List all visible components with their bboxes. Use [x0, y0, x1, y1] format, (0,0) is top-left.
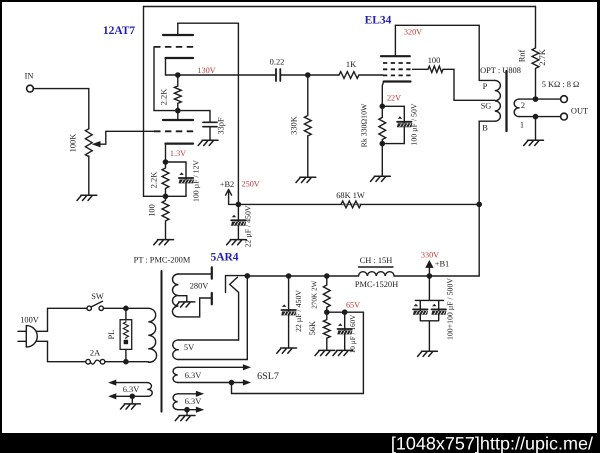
- resistor 56K: [323, 312, 330, 350]
- inductor CH 15H choke: [359, 272, 395, 276]
- transformer PT 5V winding: [173, 340, 179, 360]
- triode V1b 12AT7 upper plate lead: [177, 23, 179, 35]
- svg-text:0.22: 0.22: [270, 57, 285, 66]
- svg-text:5AR4: 5AR4: [210, 252, 238, 264]
- switch SW: [87, 306, 91, 310]
- capacitor 33pF: [203, 122, 217, 126]
- ground 330K: [296, 177, 316, 182]
- wire 65V line: [232, 312, 364, 393]
- node 330K junction: [305, 72, 311, 78]
- node Rk bottom: [380, 141, 386, 147]
- wire switch to PT: [103, 307, 148, 309]
- svg-text:330K: 330K: [290, 116, 299, 135]
- svg-text:2.7K: 2.7K: [538, 49, 547, 66]
- inductor choke core bar: [359, 266, 394, 268]
- ground 6.3V-left: [121, 404, 141, 409]
- transformer PT 6.3V winding 2: [173, 394, 178, 410]
- transformer PT 280V winding: [172, 274, 178, 317]
- AC plug 100V: [18, 326, 37, 347]
- node lamp bottom junction: [123, 359, 129, 365]
- wire 280V bottom to plate2: [178, 298, 211, 317]
- node B rail junction: [476, 202, 482, 208]
- node lower plate junction: [175, 108, 181, 114]
- svg-text:6.3V: 6.3V: [185, 397, 202, 406]
- resistor 1K grid stopper: [339, 72, 383, 79]
- svg-text:250V: 250V: [242, 179, 260, 188]
- node 22uF reservoir junction: [286, 273, 292, 279]
- node rectifier output: [245, 273, 251, 279]
- svg-text:Rk 330Ω10W: Rk 330Ω10W: [360, 103, 369, 147]
- svg-text:100V: 100V: [20, 316, 39, 325]
- capacitor 100uF/12V: [179, 172, 194, 183]
- node +B1 junction: [427, 273, 433, 279]
- ground 6.3V-2: [175, 416, 195, 421]
- wire pot to ground: [88, 156, 90, 195]
- wire 280V center tap: [178, 296, 186, 302]
- resistor 100 screen: [413, 66, 495, 100]
- svg-text:B: B: [482, 124, 488, 133]
- triode V1a 12AT7 lower grid (dashed): [154, 130, 194, 132]
- svg-text:5V: 5V: [184, 343, 194, 352]
- ground OUT: [524, 140, 544, 145]
- resistor 68K 1W: [341, 201, 361, 208]
- wire 5V top lead: [179, 339, 239, 341]
- wire secondary tap1 to OUT: [520, 116, 561, 118]
- svg-text:EL34: EL34: [365, 15, 392, 27]
- svg-text:PT : PMC-200M: PT : PMC-200M: [134, 256, 191, 265]
- svg-text:130V: 130V: [197, 66, 215, 75]
- svg-text:1K: 1K: [346, 60, 356, 69]
- node cathode bottom junction: [163, 194, 169, 200]
- resistor 100: [162, 196, 169, 239]
- node 6.3V-left ground junction: [130, 394, 136, 400]
- resistor 2.2K cathode: [162, 162, 169, 196]
- wire 6.3V-2 to ground: [186, 410, 188, 416]
- lamp PL with resistor: [125, 308, 127, 361]
- node heater bias junction: [229, 380, 235, 386]
- wire NFB rail top: [144, 6, 536, 8]
- capacitor 22uF/450V (B2): [231, 215, 246, 226]
- svg-text:PL: PL: [107, 330, 116, 340]
- capacitor 22uF/450V (B2) lead: [237, 204, 239, 239]
- transformer PT 6.3V left winding: [147, 383, 152, 397]
- wire 130V line to coupling cap: [166, 74, 277, 76]
- ground 56K: [315, 350, 335, 355]
- pentode V2 EL34 plate bar: [381, 55, 410, 57]
- svg-text:[1048x757]http://upic.me/: [1048x757]http://upic.me/: [391, 434, 593, 453]
- svg-text:100: 100: [428, 56, 441, 65]
- wire 6.3V-1 top lead arrow: [178, 366, 244, 368]
- wire upper cathode to 130V node: [165, 58, 167, 75]
- node NFB pickup: [533, 96, 539, 102]
- pentode V2 EL34 plate lead: [394, 25, 396, 56]
- wire OUT ground lead: [535, 117, 537, 140]
- svg-text:100K: 100K: [69, 134, 78, 153]
- svg-text:1.3V: 1.3V: [170, 149, 186, 158]
- svg-text:22V: 22V: [387, 94, 401, 103]
- capacitor 10uF/160V: [344, 312, 346, 350]
- svg-text:100+100 µF / 500V: 100+100 µF / 500V: [446, 278, 455, 340]
- svg-text:1: 1: [520, 121, 524, 130]
- svg-text:270K 2W: 270K 2W: [310, 280, 318, 308]
- svg-text:100 µF / 12V: 100 µF / 12V: [192, 160, 201, 202]
- wire 33pF to ground: [209, 127, 211, 140]
- node +B2 junction: [236, 202, 242, 208]
- node +B1 arrow: [426, 262, 432, 277]
- wire 12AT7 top B+ wire: [178, 22, 239, 24]
- pentode V2 EL34 cathode bar: [384, 80, 411, 82]
- wire 280V top to plate1: [178, 273, 211, 275]
- transformer PT 6.3V winding 1: [173, 367, 178, 382]
- svg-text:6SL7: 6SL7: [257, 371, 279, 382]
- svg-text:12AT7: 12AT7: [103, 25, 136, 37]
- wire 6.3V-1 bottom lead arrow: [178, 382, 244, 384]
- svg-text:6.3V: 6.3V: [185, 371, 202, 380]
- wire to lower plate: [177, 111, 179, 120]
- node 270K junction: [324, 273, 330, 279]
- fuse 2A: [86, 359, 91, 364]
- ground 33pF: [198, 140, 218, 145]
- resistor Rnf 2.7K: [532, 7, 539, 100]
- node IN terminal: [27, 85, 34, 92]
- svg-text:+B2: +B2: [220, 180, 235, 189]
- svg-text:OUT: OUT: [571, 107, 588, 116]
- ground 100+100uF: [418, 351, 438, 356]
- svg-text:22 µF / 450V: 22 µF / 450V: [244, 205, 253, 247]
- wire 6.3V-2 bottom lead arrow: [178, 409, 197, 411]
- svg-text:5 KΩ : 8 Ω: 5 KΩ : 8 Ω: [542, 80, 580, 89]
- svg-text:68K 1W: 68K 1W: [336, 191, 365, 200]
- wire 6.3V-left to ground: [131, 396, 133, 404]
- svg-text:P: P: [483, 82, 488, 91]
- wire Rk to ground: [381, 144, 383, 176]
- wire +B2 to B1 line: [238, 203, 479, 205]
- triode V1b 12AT7 upper cathode: [166, 57, 194, 59]
- transformer OPT B lead: [479, 121, 495, 276]
- wire choke to +B1: [394, 275, 479, 277]
- transformer OPT primary winding: [495, 80, 501, 121]
- capacitor 0.22 coupling: [276, 69, 280, 81]
- triode V1b 12AT7 upper grid (dashed): [154, 46, 194, 48]
- node 10uF junction: [342, 309, 348, 315]
- svg-text:+B1: +B1: [435, 260, 450, 269]
- potentiometer wiper arrow: [99, 131, 154, 144]
- ground pot: [77, 195, 97, 200]
- wire secondary tap2 to OUT: [520, 98, 561, 100]
- node plate/cathode junction 130V: [175, 72, 181, 78]
- svg-text:10 µF / 160V: 10 µF / 160V: [349, 314, 357, 353]
- svg-text:330V: 330V: [421, 251, 439, 260]
- svg-text:SG: SG: [481, 102, 492, 111]
- ground 10uF: [333, 350, 353, 355]
- transformer PT core: [161, 271, 163, 412]
- wire lower cathode lead: [165, 144, 167, 162]
- wire 33pF branch: [180, 111, 210, 123]
- ground EL34 cathode: [371, 176, 391, 181]
- svg-text:320V: 320V: [404, 28, 422, 37]
- svg-text:280V: 280V: [190, 282, 209, 291]
- ground 280V center tap: [175, 302, 195, 307]
- wire +B2 vertical: [237, 23, 239, 204]
- svg-text:OPT : U808: OPT : U808: [480, 66, 521, 75]
- capacitor 22uF/450V reservoir: [288, 276, 290, 348]
- node OUT hot terminal: [561, 96, 568, 103]
- capacitor 100uF/12V branch: [166, 162, 187, 196]
- triode V1b 12AT7 upper plate bar: [163, 34, 193, 36]
- svg-text:2.2K: 2.2K: [160, 89, 169, 106]
- svg-text:2.2K: 2.2K: [150, 172, 159, 189]
- ground 22uF reservoir: [277, 348, 297, 353]
- wire 0.22 to grid line: [280, 74, 339, 76]
- svg-text:65V: 65V: [346, 301, 360, 310]
- wire IN to pot: [33, 89, 88, 129]
- ground 22uF B2: [227, 240, 247, 245]
- resistor 2.2K upper: [174, 75, 181, 111]
- node OUT cold terminal: [561, 113, 568, 120]
- svg-text:2: 2: [521, 101, 525, 110]
- wire plug to rails: [37, 308, 88, 331]
- svg-text:100: 100: [148, 204, 157, 217]
- wire EL34 cathode lead: [382, 82, 383, 107]
- svg-text:IN: IN: [25, 72, 34, 81]
- wire 6.3V-left bottom lead arrow: [115, 395, 147, 397]
- wire fuse to PT: [105, 361, 148, 363]
- node 6.3V-2 ground junction: [184, 407, 190, 413]
- wire 6.3V-left top lead arrow: [115, 382, 147, 384]
- triode V1a 12AT7 lower plate bar: [163, 119, 193, 121]
- node 65V junction: [324, 309, 330, 315]
- wire 320V plate line to OPT P: [395, 25, 479, 80]
- wire NFB left vertical: [144, 7, 164, 197]
- transformer OPT primary P lead: [479, 79, 495, 81]
- transformer PT primary winding: [148, 308, 156, 362]
- rectifier U3 5AR4 plate2 bar: [211, 293, 213, 304]
- wire upper grid lead: [154, 47, 175, 111]
- pentode V2 EL34 G3 dashed: [383, 62, 411, 64]
- svg-text:56K: 56K: [308, 321, 317, 335]
- triode V1a 12AT7 lower cathode: [166, 143, 194, 145]
- ground 100 ohm: [154, 240, 174, 245]
- capacitor 100+100uF/500V: [415, 276, 443, 351]
- rectifier U3 5AR4 cathode: [226, 276, 248, 340]
- svg-text:SW: SW: [91, 292, 104, 301]
- pentode V2 EL34 G2 dashed: [383, 68, 411, 70]
- node +B2 arrow: [226, 190, 239, 205]
- wire B+ line to choke: [247, 275, 358, 277]
- pentode V2 EL34 G1 dashed: [383, 74, 411, 76]
- capacitor 100uF/50V: [397, 116, 412, 127]
- wire 6.3V-2 top lead arrow: [178, 393, 197, 395]
- svg-text:Rnf: Rnf: [518, 50, 527, 63]
- resistor 270K 2W: [323, 276, 330, 312]
- svg-text:22 µF / 450V: 22 µF / 450V: [294, 290, 303, 332]
- wire 5V bottom lead to B+: [179, 276, 248, 360]
- potentiometer VR 100K body: [85, 129, 92, 157]
- svg-text:PMC-1520H: PMC-1520H: [355, 280, 398, 289]
- node lamp top junction: [123, 306, 129, 312]
- node OUT ground junction: [533, 114, 539, 120]
- svg-text:100 µF / 50V: 100 µF / 50V: [410, 103, 419, 145]
- svg-text:6.3V: 6.3V: [123, 385, 140, 394]
- node EL34 cathode 22V: [380, 104, 386, 110]
- transformer OPT secondary winding: [514, 99, 519, 117]
- svg-text:33pF: 33pF: [217, 117, 226, 135]
- node cathode junction 1.3V: [163, 159, 169, 165]
- rectifier U3 5AR4 plate1 bar: [211, 267, 213, 278]
- transformer OPT core: [505, 71, 507, 131]
- capacitor 100uF/50V branch: [382, 106, 404, 143]
- resistor Rk 330 ohm 10W: [379, 106, 386, 143]
- resistor 330K: [304, 75, 311, 177]
- svg-text:CH : 15H: CH : 15H: [360, 256, 393, 265]
- svg-text:2A: 2A: [90, 349, 100, 358]
